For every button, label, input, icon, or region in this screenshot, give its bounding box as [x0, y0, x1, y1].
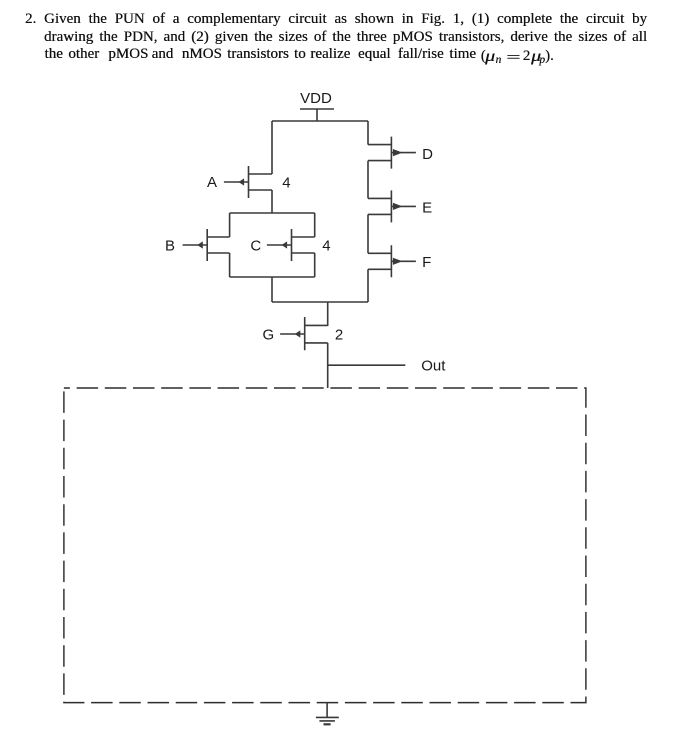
svg-text:2: 2 — [335, 327, 343, 344]
svg-text:E: E — [422, 200, 432, 217]
svg-text:G: G — [263, 327, 275, 344]
svg-text:VDD: VDD — [300, 90, 332, 107]
svg-text:A: A — [207, 174, 217, 191]
svg-text:B: B — [165, 238, 175, 255]
svg-text:4: 4 — [322, 238, 330, 255]
svg-text:F: F — [422, 254, 431, 271]
svg-text:C: C — [250, 238, 261, 255]
svg-text:Out: Out — [421, 358, 446, 375]
svg-text:D: D — [422, 146, 433, 163]
svg-text:4: 4 — [282, 175, 290, 192]
